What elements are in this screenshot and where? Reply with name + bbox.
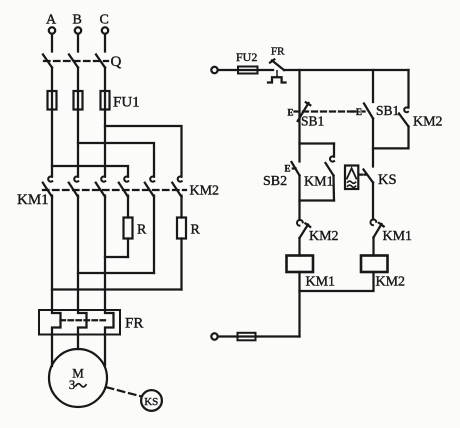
svg-text:B: B <box>73 13 82 28</box>
svg-text:KM1: KM1 <box>17 192 49 208</box>
svg-text:Q: Q <box>111 54 122 70</box>
svg-text:FR: FR <box>271 46 285 58</box>
svg-text:C: C <box>100 13 109 28</box>
svg-text:3: 3 <box>69 377 76 392</box>
svg-text:SB1: SB1 <box>376 103 399 118</box>
svg-text:A: A <box>46 13 57 28</box>
svg-text:KM2: KM2 <box>376 275 406 290</box>
svg-text:KM2: KM2 <box>413 115 443 130</box>
svg-text:FR: FR <box>125 316 143 332</box>
svg-text:E: E <box>356 107 362 117</box>
svg-text:SB1: SB1 <box>301 114 324 129</box>
svg-text:FU1: FU1 <box>113 95 140 111</box>
svg-text:KM2: KM2 <box>309 229 339 244</box>
svg-text:KM1: KM1 <box>304 175 334 190</box>
svg-text:E: E <box>285 164 291 174</box>
svg-text:FU2: FU2 <box>236 50 257 64</box>
svg-text:SB2: SB2 <box>263 174 287 189</box>
svg-text:KM1: KM1 <box>383 229 413 244</box>
svg-text:KM1: KM1 <box>306 275 336 290</box>
svg-text:KS: KS <box>144 396 158 408</box>
svg-text:KM2: KM2 <box>190 184 220 199</box>
svg-text:KS: KS <box>378 172 397 188</box>
svg-text:E: E <box>288 108 294 118</box>
svg-text:R: R <box>137 223 147 238</box>
svg-text:R: R <box>191 223 201 238</box>
